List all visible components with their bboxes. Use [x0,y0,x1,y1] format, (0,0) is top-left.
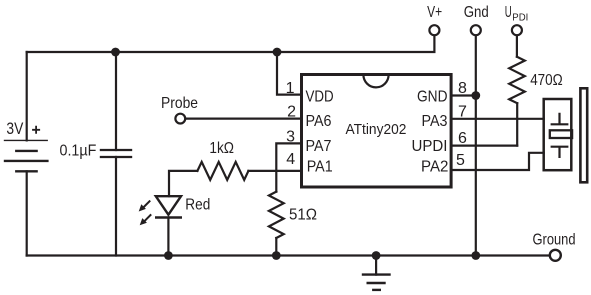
junction node Gnd column rail [471,251,480,260]
LED D1 triangle [156,196,181,215]
ground symbol bar 2 [368,282,385,284]
junction node top rail capacitor [111,48,120,57]
svg-text:1kΩ: 1kΩ [209,140,234,157]
resonator Y1 crystal box [550,130,572,138]
svg-text:Probe: Probe [161,95,198,112]
wire capacitor top lead [115,52,117,150]
junction node 51 ohm rail [272,251,281,260]
wire bottom ground rail [27,254,549,256]
wire UPDI terminal to 470 ohm resistor top [516,37,518,57]
svg-text:GND: GND [417,89,448,106]
svg-text:2: 2 [287,103,296,120]
wire pin 8 GND stub [453,94,476,96]
junction node top rail VDD [273,48,282,57]
LED D1 emission arrow 1 head [139,204,146,211]
wire LED cathode to bottom rail [167,218,169,256]
battery B1 plate 1 long thin positive [5,139,48,141]
resistor R 1k ohm zigzag [197,162,248,180]
svg-text:8: 8 [458,80,467,97]
IC U1 ATtiny202 body [302,75,452,188]
ground symbol bar 1 [363,273,390,275]
IC U1 pin 1 index notch [363,75,388,88]
terminal circle V+ [429,25,439,35]
svg-text:PA3: PA3 [422,113,448,130]
wire pin 5 PA2 jog to resonator [453,153,544,170]
svg-text:3: 3 [286,129,295,146]
battery B1 plate 2 short thick [16,150,36,152]
resistor R 470 ohm zigzag [509,57,525,103]
svg-text:PDI: PDI [512,12,528,24]
resonator Y1 diaphragm bar [580,88,587,182]
svg-text:V+: V+ [427,4,442,21]
wire 51 ohm resistor bottom lead [275,238,277,256]
svg-text:U: U [505,4,512,21]
svg-text:PA6: PA6 [306,113,332,130]
terminal circle Probe [175,114,185,124]
terminal circle Ground [550,250,561,261]
resistor R 51 ohm zigzag [269,192,284,238]
battery B1 plate 3 long thick [5,160,47,162]
wire pin 6 UPDI to 470 ohm resistor [453,145,518,147]
LED D1 cathode bar [156,216,181,218]
capacitor C1 0.1uF bottom plate [101,156,131,158]
svg-text:Gnd: Gnd [464,4,489,21]
battery B1 plate 4 short thick negative [16,170,36,172]
resonator Y1 case [544,99,572,170]
wire Gnd terminal down through pin 8 to bottom rail [475,37,477,256]
svg-text:51Ω: 51Ω [289,206,317,223]
wire capacitor bottom lead [115,157,117,256]
svg-text:PA7: PA7 [306,138,332,155]
LED D1 emission arrow 2 shaft [145,215,151,221]
terminal circle U_PDI [512,25,522,35]
resonator Y1 top plate symbol [552,114,568,125]
svg-text:3V: 3V [6,119,23,138]
svg-text:PA2: PA2 [421,159,448,176]
svg-text:0.1µF: 0.1µF [60,142,97,159]
resonator Y1 bottom plate symbol [552,147,568,157]
svg-text:6: 6 [458,130,467,147]
junction node LED cathode rail [164,251,173,260]
wire pin 4 PA1 to 1k resistor [248,170,301,172]
wire top rail from battery to V+ terminal [27,37,435,53]
wire 470 ohm resistor bottom to pin 6 net [516,103,518,145]
wire VDD pin 1 to top rail [277,52,302,95]
svg-text:Red: Red [185,196,210,213]
svg-text:Ground: Ground [533,231,576,248]
ground symbol bar 3 [373,289,380,291]
LED D1 emission arrow 2 head [140,218,147,225]
junction node ground symbol rail [372,251,381,260]
wire 1k resistor to LED anode [169,171,197,196]
svg-text:470Ω: 470Ω [530,72,563,89]
wire battery positive lead [26,52,28,140]
svg-text:5: 5 [456,152,465,169]
wire pin 3 PA7 jog down to pin 4 net [276,143,301,191]
svg-text:4: 4 [286,151,295,168]
svg-text:VDD: VDD [306,89,334,106]
junction node pin 8 GND [471,91,480,100]
wire battery negative lead down to bottom rail [26,171,28,255]
LED D1 emission arrow 1 shaft [144,201,150,207]
svg-text:PA1: PA1 [307,159,333,176]
wire probe to pin 2 PA6 [186,117,302,119]
capacitor C1 0.1uF top plate [101,149,131,151]
svg-text:7: 7 [458,103,467,120]
battery plus sign [33,127,39,133]
wire pin 7 PA3 to resonator [453,118,544,120]
terminal circle Gnd [471,25,481,35]
svg-text:UPDI: UPDI [412,138,448,155]
svg-text:ATtiny202: ATtiny202 [346,122,407,138]
svg-text:1: 1 [286,80,295,97]
ground symbol stem [375,256,377,275]
